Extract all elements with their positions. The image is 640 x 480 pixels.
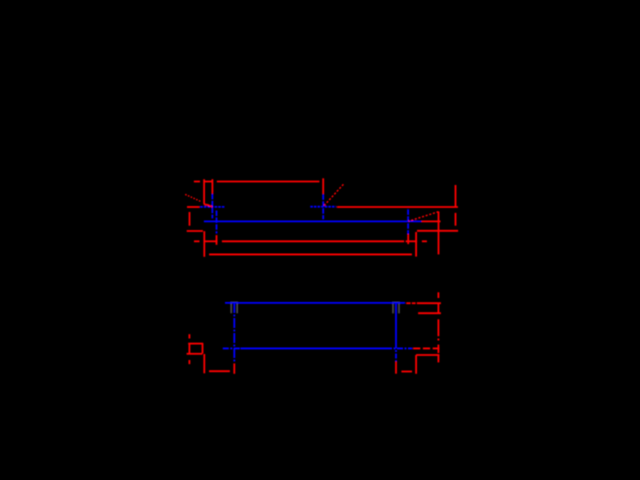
right vertical long [438, 212, 440, 255]
gray layer: hidden slots [231, 302, 399, 313]
bottom left ext dash a [188, 334, 190, 338]
bottom left foot vertical [203, 354, 205, 373]
dim line 2 piece c [222, 240, 404, 242]
centerline hole2 horizontal [310, 206, 336, 208]
left lower vertical [203, 231, 205, 257]
bottom view top edge [225, 302, 405, 304]
dim line 2 piece e [422, 240, 427, 242]
bottom left step bottom [187, 353, 203, 355]
bottom view horizontal centerline left dashes [223, 347, 241, 349]
bottom left step top [188, 343, 203, 345]
dim line 2 piece a [194, 240, 200, 242]
bottom view horizontal centerline right dashes [386, 347, 412, 349]
bottom right centerline red dashes [413, 347, 439, 349]
bottom left foot bottom [209, 370, 230, 372]
bottom right vertical dash e [437, 345, 439, 353]
bottom right top dash b [412, 302, 416, 304]
blue layer: centerlines and part edges [200, 194, 421, 363]
left end vertical [189, 212, 191, 226]
bottom right step bottom [416, 354, 439, 356]
dim line 2 piece b [204, 240, 217, 242]
bottom right inner top [418, 312, 441, 314]
bottom right vertical dash f [437, 355, 439, 362]
centerline hole1b vertical [216, 211, 218, 234]
bottom view horizontal centerline middle [241, 347, 387, 349]
bottom left below centerline [233, 363, 235, 373]
bottom right vertical dash b [437, 303, 439, 314]
extension below hole3 [407, 234, 409, 244]
right end bottom edge [417, 230, 458, 232]
bottom right vertical dash d [437, 339, 439, 341]
centerline hole3 vertical [407, 209, 409, 234]
gray slot left [231, 302, 237, 313]
bottom right foot bottom [401, 371, 412, 373]
leader dashed to hole3 [409, 212, 439, 222]
left end lower horizontal [187, 230, 203, 232]
centerline foot-right vertical solid part [395, 303, 397, 344]
right end vertical lower [455, 213, 457, 226]
dim line top left stub [194, 181, 200, 183]
centerline hole1 horizontal [200, 206, 224, 208]
dim line 2 piece d [406, 240, 418, 242]
centerline hole2 vertical [322, 194, 324, 219]
bottom right below centerline [395, 362, 397, 374]
dim line top bar between ext lines [204, 181, 212, 183]
centerline foot-right vertical dashes [395, 344, 397, 362]
gray slot right [393, 302, 399, 313]
bottom right top dash c [417, 302, 441, 304]
extension below hole1b [216, 235, 218, 245]
bottom left ext dash c [188, 360, 190, 364]
centerline foot-left vertical [233, 303, 235, 362]
extension line with hook to hole1 [204, 179, 212, 207]
dim line 3 long [209, 253, 412, 255]
red edge continuation right [422, 220, 441, 222]
right end vertical upper [455, 185, 457, 207]
right vertical near end [415, 232, 417, 257]
bottom left step vertical [202, 343, 204, 353]
mid red edge right [337, 206, 458, 208]
leader dashed to hole1 [185, 194, 201, 201]
extension line above hole2 [322, 178, 324, 194]
bottom right foot vertical [415, 355, 417, 374]
bottom right top dash a [406, 302, 410, 304]
leader dashed to hole2 [323, 184, 343, 206]
dim line top main [217, 181, 320, 183]
red layer: part edges and dimension lines [185, 178, 458, 373]
bottom right vertical dash a [437, 292, 439, 298]
bottom right vertical dash c [437, 319, 439, 336]
mid red edge left stub [187, 206, 200, 208]
top view blue edge [204, 220, 421, 222]
centerline hole1 vertical [211, 194, 213, 219]
extension line above hole1 [211, 179, 213, 194]
bottom left end vertical [188, 344, 190, 354]
